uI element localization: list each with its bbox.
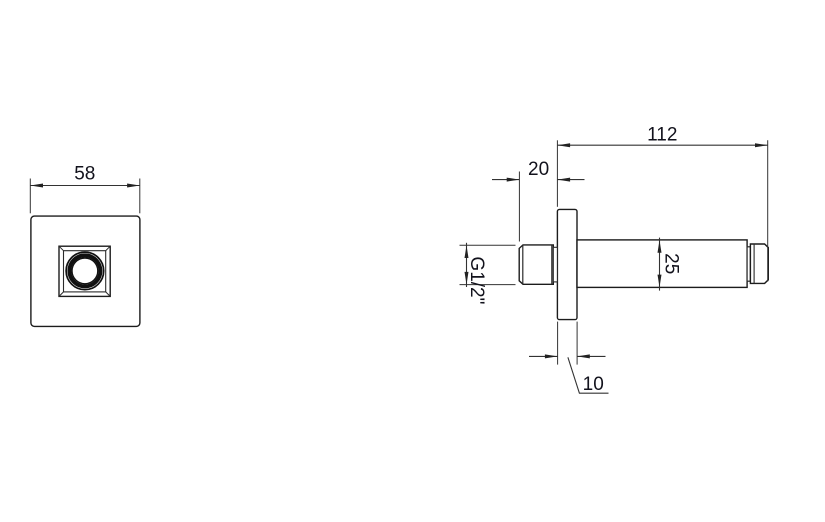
svg-text:112: 112 (647, 124, 677, 145)
side view: arm body cylinder (577, 240, 747, 288)
dimension 10: extension lines (558, 322, 578, 365)
side view: wall flange plate (557, 209, 577, 319)
dimension 25: dimension line (659, 238, 661, 291)
front view: outlet ring outer circle (66, 252, 104, 290)
side view: end cap groove line (753, 244, 755, 283)
dimension 112: right arrowhead (755, 143, 768, 147)
side view: threaded nipple G1/2 (519, 245, 553, 284)
front view: boss corner chamfer diagonals (59, 246, 110, 296)
front view: outlet ring thick band (69, 255, 100, 286)
front view: square wall plate (31, 216, 140, 326)
dimension 112: value label (647, 124, 677, 145)
side view: nipple thread end double line (551, 245, 553, 284)
dimension G1/2": bottom arrowhead (465, 272, 469, 285)
dimension 10: right tail and arrowhead (577, 354, 605, 358)
front view: inner square boss inner edge (64, 251, 106, 292)
dimension 112: left arrowhead (557, 143, 570, 147)
svg-text:10: 10 (583, 374, 604, 395)
dimension 20: value label (528, 159, 549, 180)
dimension 25: top arrowhead (658, 240, 662, 253)
dimension 20: left tail and arrowhead (492, 178, 519, 182)
front view: inner square boss outer edge (59, 246, 110, 296)
front view: outlet ring inner circle (72, 258, 98, 284)
dimension 25: value label rotated (661, 253, 682, 274)
side view: step between arm and end cap (747, 247, 750, 281)
dimension 25: bottom arrowhead (658, 275, 662, 288)
dimension 10: leader line (568, 357, 609, 393)
dimension 112: extension lines (557, 140, 767, 281)
dimension 58: value label (74, 164, 95, 185)
dimension 10: left tail and arrowhead (529, 354, 558, 358)
svg-text:58: 58 (74, 164, 95, 185)
svg-text:G1/2": G1/2" (466, 256, 487, 304)
svg-text:20: 20 (528, 159, 549, 180)
side view: end cap outlet (750, 244, 768, 283)
dimension 112: dimension line (557, 144, 767, 146)
dimension 58: left arrowhead (30, 184, 43, 188)
dimension 58: right arrowhead (127, 184, 140, 188)
dimension 10: value label (583, 374, 604, 395)
dimension G1/2": dimension line (466, 243, 468, 287)
svg-text:25: 25 (661, 253, 682, 274)
dimension G1/2": value label rotated (466, 256, 487, 304)
dimension G1/2": top arrowhead (465, 245, 469, 258)
dimension 58: extension lines (30, 179, 140, 214)
side view: nipple chamfer line (522, 245, 524, 284)
side view: neck between nipple and flange (553, 247, 557, 282)
dimension 58: dimension line (30, 185, 140, 187)
dimension 20: right tail and arrowhead (557, 178, 584, 182)
dimension 20: extension line (518, 172, 520, 242)
dimension G1/2": extension lines (460, 245, 516, 284)
